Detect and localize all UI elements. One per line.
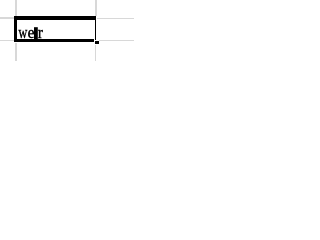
- block text cursor: [34, 27, 38, 40]
- horizontal gridline left of cell (top row boundary): [0, 17, 14, 19]
- vertical gridline below cell (left column boundary): [15, 43, 17, 61]
- svg-text:r: r: [38, 24, 44, 42]
- vertical gridline above cell (right column boundary): [95, 0, 97, 16]
- vertical gridline above cell (left column boundary): [15, 0, 17, 16]
- cell text "wer" with block cursor: [0, 0, 134, 61]
- selection border: right (stops before fill handle): [95, 16, 97, 40]
- svg-text:w: w: [18, 24, 27, 42]
- horizontal gridline right of cell (bottom row boundary): [99, 40, 134, 41]
- svg-text:e: e: [28, 24, 35, 42]
- horizontal gridline right of cell (top row boundary): [97, 18, 135, 20]
- selection border: bottom (stops before fill handle): [14, 39, 94, 42]
- selection border: top: [14, 16, 96, 20]
- selection border: left: [14, 16, 17, 42]
- fill handle square: [95, 41, 99, 45]
- vertical gridline below cell (right column boundary): [95, 45, 96, 61]
- horizontal gridline left of cell (bottom row boundary): [0, 40, 14, 42]
